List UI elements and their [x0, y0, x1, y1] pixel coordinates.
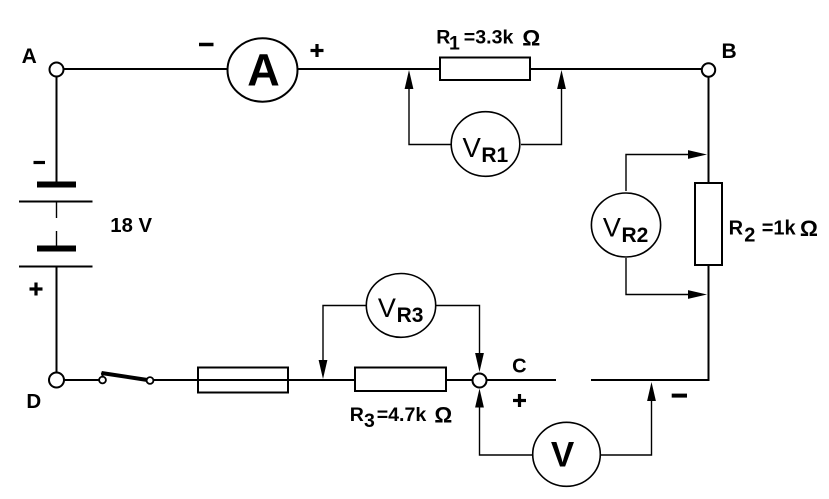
- wire node C to open terminal: [487, 379, 557, 381]
- node A: [50, 63, 64, 77]
- svg-text:V: V: [551, 436, 575, 475]
- voltmeter VR3 left probe arrow: [319, 306, 367, 380]
- voltmeter VR2: [591, 193, 660, 257]
- wire switch to R3 (through fuse): [154, 379, 355, 381]
- battery cell 2 thin plate: [19, 266, 93, 268]
- svg-text:R3: R3: [397, 304, 424, 327]
- svg-text:Ω: Ω: [800, 216, 818, 241]
- svg-text:A: A: [247, 45, 280, 96]
- plus label at C: [513, 394, 526, 407]
- voltmeter VR1: [451, 112, 520, 177]
- svg-text:A: A: [22, 45, 37, 68]
- svg-text:R: R: [729, 217, 744, 239]
- battery positive label: [30, 283, 43, 296]
- ammeter A1: [228, 38, 298, 101]
- wire R3 to node C: [446, 379, 473, 381]
- svg-text:V: V: [463, 132, 482, 163]
- node B: [702, 63, 715, 76]
- svg-text:V: V: [603, 213, 621, 243]
- fuse F1: [198, 368, 288, 393]
- svg-text:R1: R1: [481, 144, 508, 167]
- svg-text:R2: R2: [622, 224, 649, 247]
- voltmeter V: [533, 422, 601, 486]
- resistor R1: [440, 58, 530, 81]
- resistor R2: [695, 183, 722, 265]
- svg-text:V: V: [378, 293, 396, 323]
- svg-text:=3.3k: =3.3k: [464, 26, 514, 48]
- svg-text:R: R: [350, 404, 364, 426]
- label R3 =4.7k: [350, 403, 452, 433]
- switch S1: [99, 373, 153, 384]
- svg-text:1: 1: [449, 33, 460, 55]
- svg-text:Ω: Ω: [522, 26, 540, 51]
- svg-text:2: 2: [744, 224, 755, 246]
- svg-text:B: B: [722, 40, 737, 63]
- wire A to ammeter: [63, 68, 228, 70]
- voltmeter VR1 right probe arrow: [521, 70, 566, 145]
- resistor R3: [355, 368, 446, 392]
- wire ammeter to R1: [297, 68, 440, 70]
- wire node D to switch: [64, 379, 99, 381]
- wire node B to R2: [708, 77, 710, 184]
- node C: [473, 374, 487, 388]
- ammeter plus label: [311, 44, 324, 57]
- node D: [49, 373, 64, 388]
- svg-text:D: D: [26, 390, 41, 413]
- voltmeter VR3 right probe arrow: [436, 306, 484, 373]
- voltmeter VR3: [366, 274, 435, 338]
- svg-text:=1k: =1k: [762, 217, 797, 239]
- label R1 =3.3k: [436, 26, 540, 55]
- voltmeter VR2 bottom probe arrow: [626, 258, 707, 299]
- battery negative label: [34, 161, 46, 164]
- battery cell 1 thin plate: [19, 201, 93, 203]
- minus label near right terminal: [672, 394, 687, 398]
- voltmeter V right probe arrow: [600, 382, 656, 455]
- label R2 =1k: [729, 216, 818, 246]
- battery cell 2 thick plate: [37, 246, 76, 252]
- wire node A to battery: [56, 77, 58, 183]
- svg-text:=4.7k: =4.7k: [377, 404, 427, 426]
- svg-text:C: C: [512, 356, 526, 378]
- ammeter minus label: [199, 43, 214, 47]
- battery cell 1 thick plate: [37, 182, 76, 188]
- battery inter-cell dashed link: [56, 203, 58, 246]
- svg-text:Ω: Ω: [434, 403, 452, 428]
- wire battery to node D: [56, 267, 58, 374]
- voltmeter VR1 left probe arrow: [405, 70, 452, 145]
- wire R2 to bottom corner: [591, 265, 709, 380]
- voltmeter V left probe arrow: [475, 389, 532, 456]
- voltmeter VR2 top probe arrow: [626, 150, 707, 191]
- svg-text:18 V: 18 V: [110, 215, 152, 237]
- svg-text:3: 3: [364, 410, 375, 432]
- wire R1 to node B: [530, 68, 702, 70]
